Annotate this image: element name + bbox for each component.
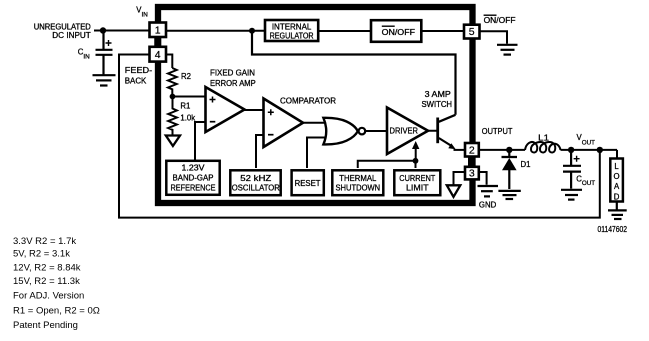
stub pin2 to pin3	[468, 157, 475, 168]
svg-text:1.23V: 1.23V	[182, 163, 206, 172]
load box	[610, 159, 623, 202]
svg-text:1: 1	[155, 25, 161, 37]
wire oscillator to comparator -	[256, 135, 264, 168]
svg-text:O: O	[614, 172, 620, 181]
emitter with arrow	[439, 138, 451, 146]
wire error amp minus to bandgap	[195, 122, 206, 160]
ground D1	[498, 191, 520, 199]
box internal regulator	[265, 20, 318, 41]
svg-text:3 AMP: 3 AMP	[425, 90, 451, 99]
wire pin1 to internal regulator	[166, 30, 264, 32]
notes text block	[13, 236, 100, 331]
wire comparator to gate	[303, 122, 330, 124]
svg-text:L: L	[614, 162, 619, 171]
wire top rail Vin to collector	[252, 31, 456, 115]
svg-text:R1 = Open, R2 = 0Ω: R1 = Open, R2 = 0Ω	[13, 305, 100, 316]
svg-text:COMPARATOR: COMPARATOR	[280, 97, 336, 106]
box 1.23V band-gap reference	[166, 161, 219, 195]
ground arrow below R1	[166, 136, 180, 147]
svg-text:DRIVER: DRIVER	[390, 127, 419, 136]
wire gate to driver	[365, 130, 387, 132]
svg-text:For ADJ. Version: For ADJ. Version	[13, 291, 84, 302]
ground GND pin3	[478, 186, 499, 196]
svg-text:REGULATOR: REGULATOR	[270, 32, 314, 41]
NOR gate	[323, 118, 357, 145]
svg-text:THERMAL: THERMAL	[339, 174, 377, 183]
node junction dot	[413, 158, 419, 164]
wire pin2 to L1	[479, 149, 525, 151]
resistor R2	[168, 68, 177, 97]
svg-text:LIMIT: LIMIT	[406, 183, 429, 192]
stub pin1 to pin4	[154, 37, 161, 47]
ground arrow near pin3	[447, 185, 461, 197]
plus sign CIN	[106, 40, 112, 46]
svg-text:ON/OFF: ON/OFF	[484, 16, 516, 25]
svg-text:3.3V R2 = 1.7k: 3.3V R2 = 1.7k	[13, 236, 76, 247]
svg-text:3: 3	[469, 168, 475, 180]
wire pin4 to R2	[166, 55, 172, 69]
svg-text:UNREGULATED: UNREGULATED	[34, 22, 91, 31]
svg-text:BACK: BACK	[125, 77, 147, 86]
resistor R1	[168, 97, 177, 136]
svg-text:ERROR AMP: ERROR AMP	[210, 79, 256, 88]
wire reset to gate	[307, 138, 330, 169]
pin 3	[465, 167, 479, 180]
svg-text:R2: R2	[181, 72, 191, 81]
box thermal shutdown	[332, 170, 383, 195]
svg-text:12V, R2 = 8.84k: 12V, R2 = 8.84k	[13, 262, 81, 273]
svg-text:R1: R1	[180, 102, 190, 111]
svg-text:1.0k: 1.0k	[180, 114, 195, 123]
wire L1 to Vout	[561, 149, 618, 151]
wire pin5 to ext ground	[480, 31, 508, 44]
capacitor COUT	[563, 150, 581, 189]
svg-text:BAND-GAP: BAND-GAP	[173, 173, 214, 182]
pin 1	[150, 23, 167, 38]
node dot input	[100, 27, 106, 33]
wire internal regulator to on/off	[319, 30, 370, 32]
pin 5	[464, 25, 480, 39]
driver triangle	[387, 108, 428, 155]
ground CIN	[93, 75, 116, 85]
svg-text:GND: GND	[479, 201, 497, 210]
svg-text:D1: D1	[521, 160, 531, 169]
svg-text:OUTPUT: OUTPUT	[482, 127, 513, 136]
inductor L1	[525, 142, 561, 153]
plus sign COUT	[574, 156, 580, 162]
node dot D1	[506, 147, 512, 153]
svg-text:FIXED GAIN: FIXED GAIN	[210, 68, 255, 77]
wire pin3 right to ground	[479, 172, 487, 185]
svg-text:15V, R2 = 11.3k: 15V, R2 = 11.3k	[13, 276, 80, 287]
arrow into driver	[415, 149, 417, 161]
svg-text:A: A	[614, 182, 620, 191]
capacitor CIN	[96, 31, 113, 75]
wire current limit to junction	[415, 161, 417, 168]
node dot Cout	[568, 147, 574, 153]
ground COUT	[561, 190, 582, 200]
pin 4	[150, 47, 167, 62]
svg-text:SHUTDOWN: SHUTDOWN	[335, 183, 380, 192]
svg-text:SWITCH: SWITCH	[422, 100, 453, 109]
wire thermal/current junction	[358, 161, 416, 168]
svg-text:RESET: RESET	[295, 179, 321, 188]
svg-text:2: 2	[469, 144, 475, 156]
svg-text:4: 4	[155, 49, 161, 61]
svg-text:DC INPUT: DC INPUT	[52, 31, 91, 40]
NOR bubble	[359, 128, 366, 135]
box current limit	[394, 170, 440, 195]
svg-text:5V, R2 = 3.1k: 5V, R2 = 3.1k	[13, 248, 70, 259]
op-amp error amp	[206, 87, 245, 132]
wire error amp out to comparator +	[245, 109, 265, 111]
wire junction to error amp +	[173, 96, 207, 98]
node junction dot Vin	[249, 28, 255, 34]
svg-text:01147602: 01147602	[598, 225, 628, 234]
svg-text:REFERENCE: REFERENCE	[171, 183, 216, 192]
wire to load	[616, 150, 618, 159]
node dot feedback	[597, 147, 603, 153]
IC border	[158, 7, 473, 203]
feedback wire pin4 to Vout node	[119, 55, 600, 218]
wire pin3 left to ground arrow	[454, 172, 466, 185]
wire input to pin 1	[94, 30, 150, 32]
comparator	[264, 99, 304, 148]
svg-text:Patent Pending: Patent Pending	[13, 320, 78, 331]
svg-text:5: 5	[469, 26, 475, 38]
box reset	[292, 170, 324, 195]
svg-text:52 kHZ: 52 kHZ	[240, 174, 271, 183]
svg-text:CURRENT: CURRENT	[399, 174, 435, 183]
svg-text:OSCILLATOR: OSCILLATOR	[232, 183, 280, 192]
svg-text:FEED-: FEED-	[125, 66, 153, 75]
svg-text:ON/OFF: ON/OFF	[382, 28, 416, 37]
node junction R2 R1	[170, 94, 176, 100]
transistor Q1 3 amp switch	[428, 130, 438, 132]
box 52 kHz oscillator	[230, 170, 280, 195]
box on/off internal	[371, 20, 421, 42]
svg-text:D: D	[614, 192, 620, 201]
ground LOAD	[616, 202, 618, 210]
svg-text:INTERNAL: INTERNAL	[272, 22, 312, 31]
svg-text:L1: L1	[538, 134, 549, 143]
wire on/off to pin 5	[422, 30, 465, 32]
pin 2	[465, 143, 479, 157]
ground ext on/off	[497, 45, 518, 55]
diode D1	[508, 150, 510, 156]
